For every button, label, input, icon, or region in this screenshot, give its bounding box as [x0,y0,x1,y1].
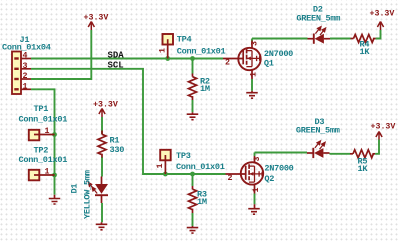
svg-text:2N7000: 2N7000 [264,49,293,59]
svg-text:+3.3V: +3.3V [370,10,395,19]
svg-text:TP4: TP4 [177,35,192,45]
svg-text:+3.3V: +3.3V [84,14,109,23]
svg-text:Conn_01x01: Conn_01x01 [19,115,68,125]
svg-text:2N7000: 2N7000 [264,163,293,173]
svg-text:1: 1 [156,164,165,169]
svg-text:D1: D1 [70,184,80,194]
svg-text:+3.3V: +3.3V [93,101,118,110]
svg-text:1M: 1M [197,197,207,207]
svg-text:SCL: SCL [108,61,124,71]
svg-text:TP1: TP1 [34,104,49,114]
svg-text:2: 2 [23,72,28,81]
svg-text:1: 1 [45,127,50,136]
svg-text:3: 3 [251,41,260,46]
svg-text:1: 1 [252,188,261,193]
svg-text:1K: 1K [358,164,369,174]
svg-text:YELLOW_5mm: YELLOW_5mm [83,170,93,219]
svg-text:Conn_01x04: Conn_01x04 [2,43,51,53]
svg-text:SDA: SDA [108,50,125,60]
svg-text:3: 3 [253,156,262,161]
svg-text:GREEN_5mm: GREEN_5mm [296,14,340,24]
svg-text:1: 1 [23,82,28,91]
svg-text:+3.3V: +3.3V [371,123,396,132]
svg-text:1K: 1K [360,47,371,57]
svg-text:Conn_01x01: Conn_01x01 [177,46,226,56]
svg-text:1: 1 [250,72,259,77]
svg-text:1: 1 [45,168,50,177]
svg-text:2: 2 [228,174,233,183]
svg-text:Conn_01x01: Conn_01x01 [176,162,225,172]
svg-text:Conn_01x01: Conn_01x01 [19,155,68,165]
svg-text:330: 330 [110,145,125,155]
svg-text:GREEN_5mm: GREEN_5mm [296,125,340,135]
svg-text:2: 2 [225,59,230,68]
svg-text:Q1: Q1 [264,59,274,69]
svg-text:1: 1 [159,48,168,53]
svg-text:TP3: TP3 [176,151,191,161]
svg-text:Q2: Q2 [264,174,274,184]
svg-text:3: 3 [23,62,28,71]
svg-text:1M: 1M [200,84,210,94]
svg-text:4: 4 [23,52,28,61]
